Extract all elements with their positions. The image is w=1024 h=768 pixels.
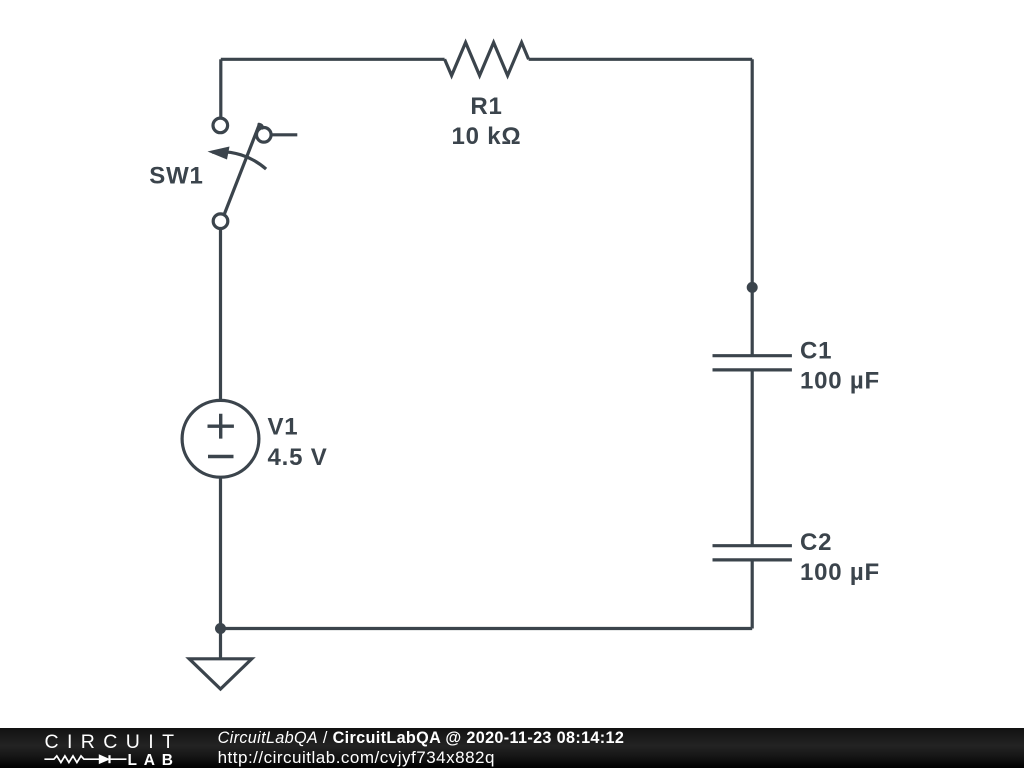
junction dot right wire [747,282,758,293]
wire right vertical upper [751,59,754,355]
wire bottom horizontal [221,627,753,630]
svg-text:LAB: LAB [128,752,180,768]
switch SW1 arrowhead [208,147,230,160]
capacitor C1 [713,356,792,370]
CircuitLab logo diode triangle [99,755,109,763]
switch SW1 blade tip hook [259,124,262,128]
switch SW1 throw stub [271,133,297,136]
wire left vertical top [219,59,222,118]
capacitor C2 [713,546,792,560]
CircuitLab logo zigzag and diode [44,755,126,763]
wire right vertical lower [751,560,754,629]
resistor R1 [445,43,529,76]
switch SW1 [213,118,228,133]
ground [189,659,252,689]
wire left vertical (V1 to bottom) [219,477,222,628]
svg-text:CIRCUIT: CIRCUIT [45,731,183,753]
wire top-left horizontal [221,58,445,61]
watermark bar [0,728,1024,768]
switch SW1 actuation arc [212,152,266,169]
wire right vertical middle [751,370,754,546]
wire left vertical (switch to V1) [219,229,222,401]
voltage source V1 [182,400,259,477]
ground stub [219,629,222,659]
wire top-right horizontal [529,58,753,61]
svg-text:http://circuitlab.com/cvjyf734: http://circuitlab.com/cvjyf734x882q [218,748,495,767]
svg-text:CircuitLabQA / CircuitLabQA @: CircuitLabQA / CircuitLabQA @ 2020-11-23… [218,729,625,747]
junction dot bottom-left [215,623,226,634]
